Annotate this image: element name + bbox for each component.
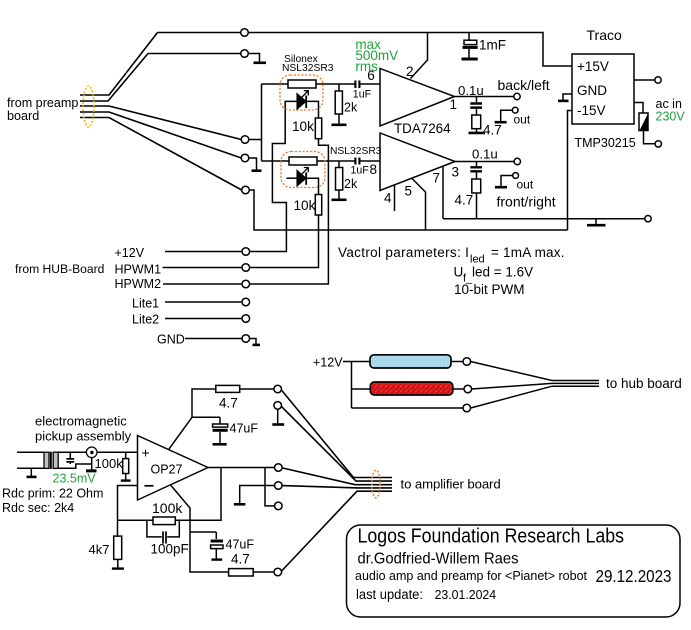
node preamp terminal 4 xyxy=(241,154,249,162)
wire 4.7 bottom to terminal xyxy=(253,571,274,573)
svg-text:to amplifier board: to amplifier board xyxy=(401,476,501,491)
svg-text:1uF: 1uF xyxy=(353,88,372,100)
wire output rail A with terminal xyxy=(443,218,645,220)
connector testpoint J1 xyxy=(86,447,97,458)
wire vertical joining vactrol resistors left xyxy=(249,84,262,161)
node OP27 out gnd terminal xyxy=(275,482,283,490)
svg-text:7: 7 xyxy=(433,170,441,185)
fuse F1 xyxy=(639,113,648,131)
wire circle4 L-ground xyxy=(240,486,275,504)
wire lamp1 to terminal xyxy=(451,361,464,363)
wire 10k2 bottom to HPWM1 xyxy=(250,215,319,268)
op-amp U1B TDA7264 xyxy=(380,133,455,191)
node preamp terminal 5 xyxy=(242,186,250,194)
wire out1 L-ground xyxy=(501,110,513,121)
ground at preamp line2 terminal xyxy=(248,54,260,63)
wire testpoint to OP27 + xyxy=(97,451,138,453)
svg-text:HPWM2: HPWM2 xyxy=(115,277,162,291)
svg-text:pickup assembly: pickup assembly xyxy=(35,429,132,444)
resistor 4.7 R10 xyxy=(216,385,240,392)
svg-text:5: 5 xyxy=(405,184,413,199)
svg-text:GND: GND xyxy=(577,83,607,98)
node out2 terminal xyxy=(513,173,519,179)
svg-text:4: 4 xyxy=(384,191,392,206)
wire preamp line 5 (gnd) to bottom rail xyxy=(80,118,242,191)
wire Traco ac in via fuse xyxy=(634,103,655,144)
wire preamp line 2 xyxy=(80,54,245,102)
op-amp U5 OP27 xyxy=(138,436,209,501)
wire terminal2 ground xyxy=(277,409,279,423)
resistor 10k R1 xyxy=(315,118,321,139)
node cable marker preamp (yellow ellipse) xyxy=(83,86,94,127)
wire pin2 from top rail xyxy=(411,33,428,79)
resistor 4k7 ground xyxy=(117,559,119,567)
photoresistor of vactrol U3 xyxy=(289,157,317,165)
svg-text:4.7: 4.7 xyxy=(219,396,238,411)
node Lite2 terminal xyxy=(242,315,250,323)
svg-text:GND: GND xyxy=(157,333,185,347)
node back/left terminal xyxy=(514,93,520,99)
LED of vactrol U3 xyxy=(297,171,306,186)
node preamp terminal 1 xyxy=(241,29,249,37)
node OP27 V- terminal xyxy=(274,568,282,576)
resistor 100k R9 feedback xyxy=(153,517,175,525)
Traco PSU module U4 xyxy=(572,54,634,124)
svg-text:led = 1.6V: led = 1.6V xyxy=(472,265,533,280)
title block frame xyxy=(347,525,681,617)
node HPWM2 terminal xyxy=(242,280,250,288)
resistor 4.7 R6 xyxy=(472,179,481,193)
svg-text:out: out xyxy=(517,178,534,192)
wire pickup secondary top xyxy=(58,451,86,453)
svg-text:0.1u: 0.1u xyxy=(472,147,498,162)
svg-text:Logos Foundation Research Labs: Logos Foundation Research Labs xyxy=(358,525,625,547)
wire vactrol2 resistor row xyxy=(262,160,355,162)
wire diagonal preamp line 1 xyxy=(80,33,158,96)
svg-text:Vactrol parameters: I: Vactrol parameters: I xyxy=(338,245,469,260)
svg-text:Traco: Traco xyxy=(587,27,622,43)
svg-text:8: 8 xyxy=(370,162,378,177)
svg-text:board: board xyxy=(7,109,39,123)
wire OP27 V+ diagonal and rail xyxy=(169,389,220,449)
wire pin5 to bottom rail xyxy=(412,179,426,231)
svg-text:10k: 10k xyxy=(292,119,314,134)
svg-text:-15V: -15V xyxy=(577,103,606,118)
capacitor pickup stubs xyxy=(69,452,71,464)
capacitor 0.1u C4 stubs xyxy=(476,162,478,180)
wire HUB Lite1 row xyxy=(165,301,242,303)
LED of vactrol U2 xyxy=(297,94,306,109)
node OP27 gnd terminal xyxy=(274,402,282,410)
svg-text:Lite1: Lite1 xyxy=(132,297,159,311)
wire OP27 V- diagonal and rail xyxy=(171,486,229,573)
resistor 100k input ground stub xyxy=(125,452,127,479)
svg-text:4k7: 4k7 xyxy=(89,542,110,557)
lamp LA2 red xyxy=(370,382,453,395)
svg-text:23.01.2024: 23.01.2024 xyxy=(435,587,497,602)
wire 2k1 stubs xyxy=(338,84,340,124)
resistor 2k R3 xyxy=(335,91,342,114)
capacitor 47uF1 bottom plate xyxy=(213,429,228,432)
svg-text:3: 3 xyxy=(452,164,460,179)
wire HUB Lite2 row xyxy=(165,318,242,320)
svg-text:1uF: 1uF xyxy=(351,165,370,177)
wire 1uF2 to pin8 xyxy=(360,160,380,162)
wire HUB HPWM2 row xyxy=(163,283,242,285)
capacitor 47uF2 ground xyxy=(215,549,217,559)
wire amp board diagonals xyxy=(281,390,392,478)
svg-text:47uF: 47uF xyxy=(226,538,255,552)
resistor 4.7 R6 lower stub to rail xyxy=(476,193,478,219)
svg-text:2k: 2k xyxy=(344,101,358,115)
resistor 10k R2 xyxy=(315,195,321,216)
wire circle5 to long bottom rail xyxy=(249,190,567,230)
svg-text:4.7: 4.7 xyxy=(231,552,250,567)
svg-text:from HUB-Board: from HUB-Board xyxy=(15,262,104,276)
capacitor 1mF bottom plate xyxy=(463,46,478,49)
wire pickup secondary bottom step xyxy=(58,464,92,468)
wire 100pF parallel loop xyxy=(147,520,179,537)
svg-text:TDA7264: TDA7264 xyxy=(394,121,451,136)
node rail A terminal xyxy=(645,216,651,222)
resistor 4.7 R5 xyxy=(472,115,481,129)
svg-text:230V: 230V xyxy=(656,110,686,124)
svg-text:+12V: +12V xyxy=(313,356,343,370)
node GND terminal xyxy=(242,335,250,343)
vactrol U2 outline xyxy=(280,75,323,110)
wire pickup primary top xyxy=(17,451,44,453)
op-amp minus sign xyxy=(145,485,154,487)
svg-text:10-bit PWM: 10-bit PWM xyxy=(454,282,525,297)
transformer T1 coil bars xyxy=(44,452,49,468)
svg-text:out: out xyxy=(514,113,531,127)
node OP27 V+ terminal xyxy=(274,385,282,393)
node OP27 out2 terminal xyxy=(275,502,283,510)
wire Traco -15V down to bottom rail xyxy=(568,111,573,231)
svg-text:6: 6 xyxy=(367,68,375,83)
svg-text:0.1u: 0.1u xyxy=(458,83,484,98)
node A vactrol1 resistor wire xyxy=(262,83,355,85)
wire lamp terminals converge to hub board xyxy=(471,362,599,381)
svg-text:+15V: +15V xyxy=(577,59,609,74)
svg-text:from preamp: from preamp xyxy=(7,96,78,110)
svg-text:U: U xyxy=(454,265,464,280)
wire pickup primary bottom with ground xyxy=(17,468,44,476)
capacitor 47uF1 top plate hollow xyxy=(213,424,228,427)
capacitor 0.1u C3 stubs xyxy=(476,97,478,116)
wire out2 L-ground xyxy=(501,176,513,187)
resistor 4k7 R8 xyxy=(114,536,122,559)
wire HUB +12V row xyxy=(165,251,242,253)
svg-text:NSL32SR3: NSL32SR3 xyxy=(330,146,382,157)
node front/right terminal xyxy=(514,158,520,164)
wire pin7 down to out rail xyxy=(442,166,444,219)
wire vactrol2 LED cathode to 10k2 xyxy=(306,178,318,194)
capacitor 47uF2 top plate xyxy=(211,540,223,543)
resistor 4.7 R11 xyxy=(229,569,254,576)
wire output tap down to circle5 xyxy=(265,468,275,506)
wire lamp2 to terminal xyxy=(452,388,464,390)
node out1 terminal xyxy=(512,107,518,113)
wire top rail from preamp to Traco xyxy=(158,33,573,67)
svg-text:+: + xyxy=(142,445,150,461)
node lamp1 terminal xyxy=(463,358,471,366)
wire Traco GND pin to ground xyxy=(563,94,572,100)
svg-text:10k: 10k xyxy=(294,198,316,213)
svg-text:1: 1 xyxy=(450,97,458,112)
capacitor 0.1u C4 plates xyxy=(470,167,482,171)
wire vactrol1 LED cathode to 10k1 xyxy=(306,101,318,118)
wire HUB HPWM1 row xyxy=(163,267,243,269)
capacitor 1uF C2 xyxy=(355,158,359,165)
svg-text:Rdc prim: 22 Ohm: Rdc prim: 22 Ohm xyxy=(2,487,103,501)
wire 1uF1 to pin6 xyxy=(360,83,380,85)
svg-text:23.5mV: 23.5mV xyxy=(53,472,97,486)
resistor 2k R4 xyxy=(336,168,343,191)
svg-text:TMP30215: TMP30215 xyxy=(575,136,636,150)
wire OP27 output xyxy=(208,467,275,469)
node preamp terminal 3 xyxy=(241,136,249,144)
node Lite1 terminal xyxy=(242,298,250,306)
lamp LA1 blue xyxy=(370,355,451,368)
node Traco +15V terminal xyxy=(655,77,661,83)
svg-text:+12V: +12V xyxy=(115,246,145,260)
svg-text:29.12.2023: 29.12.2023 xyxy=(596,566,672,586)
svg-text:to hub board: to hub board xyxy=(606,376,682,391)
svg-text:dr.Godfried-Willem Raes: dr.Godfried-Willem Raes xyxy=(358,550,519,567)
resistor 100k R7 input load xyxy=(123,459,129,474)
node OP27 out terminal xyxy=(275,464,283,472)
svg-text:100k: 100k xyxy=(95,456,124,471)
node Traco ac terminal xyxy=(655,141,661,147)
svg-text:Rdc sec: 2k4: Rdc sec: 2k4 xyxy=(2,501,74,515)
capacitor 0.1u C3 plates xyxy=(470,104,482,108)
svg-text:100pF: 100pF xyxy=(151,542,189,557)
svg-text:OP27: OP27 xyxy=(151,463,183,477)
wire pin4 stub xyxy=(394,185,396,211)
capacitor 100pF plates xyxy=(163,531,166,543)
svg-text:2: 2 xyxy=(406,64,414,79)
svg-text:NSL32SR3: NSL32SR3 xyxy=(282,63,334,74)
wire 47uF2 branch xyxy=(190,532,216,539)
wire HUB GND row xyxy=(185,339,256,345)
wire OP27 minus input loop xyxy=(118,468,222,521)
wire amp2 output to front/right xyxy=(455,161,514,163)
svg-text:100k: 100k xyxy=(152,500,183,516)
wire Traco +15V output xyxy=(634,79,655,81)
svg-text:1mF: 1mF xyxy=(479,38,506,53)
svg-text:audio amp and preamp for <Pia: audio amp and preamp for <Pianet> robot xyxy=(355,568,587,583)
svg-text:4.7: 4.7 xyxy=(455,193,474,208)
capacitor 47uF1 stubs xyxy=(219,417,221,443)
node HPWM1 terminal xyxy=(242,264,250,272)
wire vactrol2 LED anode join xyxy=(286,177,297,179)
svg-text:Lite2: Lite2 xyxy=(132,313,159,327)
capacitor pickup plates xyxy=(66,459,74,462)
vactrol U3 outline xyxy=(281,152,325,188)
capacitor 1mF top plate xyxy=(464,40,477,44)
svg-text:front/right: front/right xyxy=(497,194,556,210)
capacitor 1mF stubs xyxy=(468,33,470,59)
ground at preamp line4 xyxy=(249,158,257,170)
ground on rail A xyxy=(595,219,597,225)
transformer T1 core xyxy=(50,452,52,469)
capacitor 47uF2 bottom plate hollow xyxy=(211,545,223,549)
node cable marker amp board (orange ellipse) xyxy=(372,470,380,498)
wire 4k7 top stub xyxy=(117,520,119,536)
wire 2k2 stubs xyxy=(338,161,340,199)
node lamp2 terminal xyxy=(464,385,472,393)
svg-text:= 1mA max.: = 1mA max. xyxy=(491,245,565,260)
svg-text:2k: 2k xyxy=(344,177,358,191)
capacitor 1uF C1 xyxy=(355,81,359,89)
wire 4.7 top to terminal xyxy=(240,388,274,390)
wire 10k1 bottom jog to HPWM2 xyxy=(250,139,329,284)
resistor 4.7 R5 ground xyxy=(476,129,478,132)
photoresistor of vactrol U2 xyxy=(288,80,316,88)
svg-text:4.7: 4.7 xyxy=(483,123,502,138)
wire amp1 output to back/left xyxy=(455,96,514,98)
wire vactrol1 LED anode bus to +12V xyxy=(250,101,298,251)
wire +12V to lamps xyxy=(343,362,463,409)
svg-text:back/left: back/left xyxy=(498,77,550,93)
wire preamp line 4 to ground xyxy=(80,112,241,158)
svg-text:47uF: 47uF xyxy=(230,422,259,436)
node preamp terminal 2 xyxy=(241,50,249,58)
wire preamp line 3 to vactrol1 xyxy=(80,106,241,140)
svg-text:last update:: last update: xyxy=(356,587,423,602)
op-amp U1A TDA7264 xyxy=(380,69,455,127)
svg-text:electromagnetic: electromagnetic xyxy=(35,414,127,429)
wire testpoint down to ground xyxy=(91,458,93,470)
node lamp gnd terminal xyxy=(463,404,471,412)
node +12V terminal xyxy=(242,248,250,256)
svg-text:HPWM1: HPWM1 xyxy=(115,263,162,277)
